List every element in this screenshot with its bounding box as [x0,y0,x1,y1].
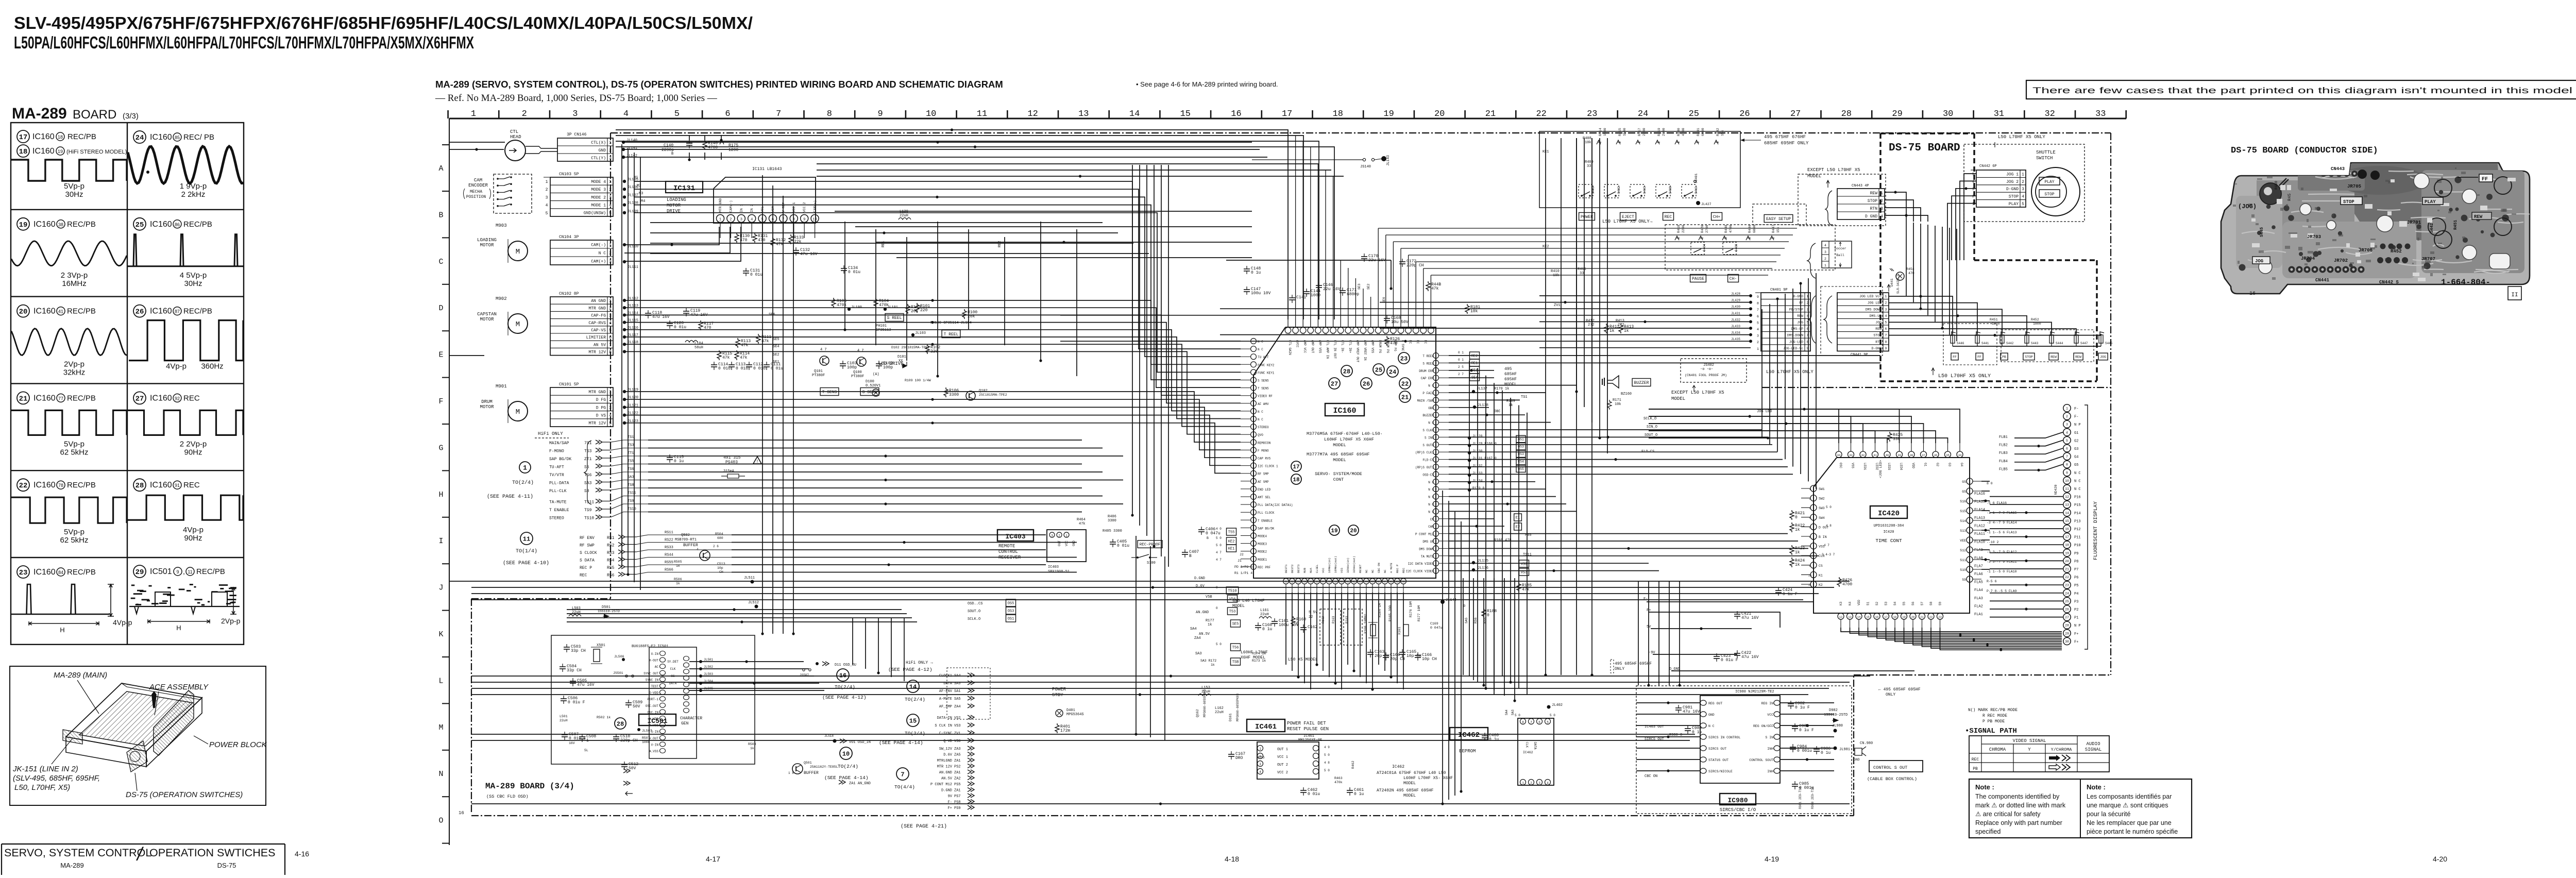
C422 cap [1734,650,1759,660]
svg-text:BUFFER: BUFFER [683,543,698,548]
wire middle bottom vertical 6 [1514,578,1515,701]
KE1 text [1543,150,1549,154]
wire CTL vertical 9 [650,243,1133,244]
wire mid vertical bundle 5 [1161,165,1162,556]
svg-text:P8: P8 [2074,560,2078,564]
svg-text:6: 6 [725,109,730,119]
svg-text:FLA9: FLA9 [1974,548,1983,552]
svg-text:19: 19 [1383,109,1394,119]
svg-text:JR706: JR706 [2359,248,2372,253]
svg-text:S2: S2 [1875,601,1879,605]
svg-text:STOP: STOP [2009,195,2019,199]
connector CN102 [550,292,613,356]
wire CN443 to CN442 3 [1885,208,1921,222]
wire DS-75 vertical 4 [1927,225,1928,315]
svg-text:S3: S3 [1885,601,1888,605]
svg-text:2200: 2200 [1642,128,1646,136]
svg-text:3: 3 [1051,534,1053,538]
svg-text:34: 34 [1958,453,1962,457]
svg-text:3: 3 [2066,423,2068,427]
wire IC420 bottom run 5 [1877,628,2062,638]
svg-text:14: 14 [1857,615,1861,619]
svg-text:OS1: OS1 [1008,617,1014,621]
svg-text:84: 84 [58,570,63,575]
IC462 label [1450,728,1488,740]
svg-text:5 0: 5 0 [1324,753,1330,757]
svg-text:R981 2E9-T18: R981 2E9-T18 [1799,786,1802,809]
svg-text:0 01u: 0 01u [848,270,860,275]
svg-text:IC501: IC501 [647,717,667,725]
wire IC980 lead 1 [1636,702,1700,703]
svg-text:M3777M7A 495 685HF 695HF: M3777M7A 495 685HF 695HF [1307,452,1369,457]
svg-text:495 675HF 676HF: 495 675HF 676HF [1764,134,1806,140]
svg-text:0 01u F: 0 01u F [568,700,585,705]
wire power rail 4 [1653,654,1737,655]
soccer bracket [1807,243,1816,278]
R113 resistor [736,338,751,348]
svg-text:S ING: S ING [1425,436,1434,440]
R126 resistor [1385,336,1400,346]
waveform 22 label [17,479,96,491]
connector arrows left cluster [623,769,633,796]
JS401 JL427 [1694,173,1711,206]
svg-text:3: 3 [609,406,612,410]
svg-text:N C: N C [1428,481,1434,484]
wire IC420 riser 6 [1649,409,1900,443]
svg-text:100p: 100p [847,365,857,370]
svg-text:0 1u: 0 1u [1489,737,1499,742]
connector CN443 [1837,189,1885,220]
circled 28c [615,718,626,729]
frame corner 16 [459,811,464,816]
IC980 function [1720,807,1756,813]
IC980 chip box [1700,696,1780,783]
wire IC420 riser 9 [1649,431,1936,443]
wire IC160 bottom drop 15 [1372,593,1373,689]
svg-text:CN442 S: CN442 S [2379,280,2399,285]
wire left vertical bundle 1 [621,144,622,567]
svg-text:18: 18 [2065,544,2069,547]
svg-text:47u 16V: 47u 16V [652,315,670,319]
svg-text:T SENS: T SENS [822,390,837,395]
R162 R163 labels [1321,616,1349,623]
svg-text:•SIGNAL PATH: •SIGNAL PATH [1965,727,2017,735]
SE1 label [1458,365,1480,374]
svg-text:H: H [438,491,443,499]
svg-text:N P: N P [2074,423,2081,427]
svg-text:Ne les remplacer que par une: Ne les remplacer que par une [2087,819,2172,826]
svg-text:PT380F: PT380F [851,375,864,379]
svg-text:12: 12 [1839,615,1843,619]
T510 label [1216,586,1239,594]
R101 resistor [915,303,930,313]
svg-text:5: 5 [1757,321,1759,325]
svg-text:ZA2: ZA2 [954,777,961,781]
svg-text:0 1: 0 1 [1458,351,1464,354]
svg-text:8: 8 [2066,463,2068,467]
C119 capacitor [683,308,708,317]
circled 20 in IC160 [1348,525,1359,535]
wire right vertical drop 10 [1584,138,1585,407]
svg-text:5 0: 5 0 [1550,714,1555,717]
svg-text:N() MARK REC/PB MODE: N() MARK REC/PB MODE [1968,708,2018,713]
L161 inductor [1259,609,1272,618]
svg-text:SIN_O: SIN_O [1647,425,1657,429]
svg-text:J2: J2 [1240,553,1244,556]
svg-text:CAM(+): CAM(+) [591,260,606,264]
svg-text:QVO: QVO [1258,433,1263,437]
svg-text:23: 23 [19,569,28,577]
page title line 1 [14,13,753,32]
C141 capacitor [1289,295,1306,303]
svg-text:OSC: OSC [1839,463,1842,468]
wire IC160 bottom drop 10 [1341,593,1342,689]
SE4 label [1458,373,1480,381]
wire IC160 bottom drop 4 [1304,593,1305,683]
svg-text:JL138: JL138 [1478,403,1488,408]
svg-text:91: 91 [175,483,180,488]
svg-text:INH: INH [1767,747,1773,751]
svg-text:DS-75 (OPERATION SWITCHES): DS-75 (OPERATION SWITCHES) [126,790,243,799]
R160 resistor [1291,616,1306,626]
svg-text:CTL IN OUT: CTL IN OUT [1333,340,1337,359]
svg-text:MAIN/SAP: MAIN/SAP [549,441,569,446]
svg-text:Q101: Q101 [814,369,823,374]
IC131 pin wires [720,223,815,238]
wire vertical IC403 right 3 [1454,511,1455,796]
svg-text:CONT: CONT [1333,477,1344,482]
svg-text:ZA1: ZA1 [954,771,961,775]
svg-text:DMS DOWN: DMS DOWN [1866,308,1882,311]
svg-text:15: 15 [1866,615,1870,619]
svg-text:M: M [516,248,520,256]
svg-text:5Vp-p: 5Vp-p [64,182,84,191]
svg-text:JK-151 (LINE IN 2): JK-151 (LINE IN 2) [12,765,78,773]
TSB label [1231,658,1266,665]
wire IC131 to right 7 [896,257,1252,258]
svg-text:R173 1k: R173 1k [1252,659,1266,663]
svg-text:AF AMV: AF AMV [1258,402,1269,406]
svg-text:JS140: JS140 [1360,165,1371,169]
svg-text:FLA7: FLA7 [1974,564,1983,568]
svg-text:R415: R415 [1618,128,1622,136]
svg-text:MECHA: MECHA [470,190,482,194]
svg-text:CHROMA: CHROMA [1989,747,2006,752]
svg-text:N C: N C [1428,503,1434,506]
svg-text:S443: S443 [2031,342,2039,345]
wire middle bottom vertical 13 [1518,405,1519,688]
svg-text:SHUTTLE: SHUTTLE [2036,150,2056,155]
wire FLA ladder 11 [1990,577,2063,578]
svg-text:IC160: IC160 [150,394,172,402]
svg-text:5 0: 5 0 [1216,544,1222,547]
T53 label [1216,606,1238,615]
REC label [1663,213,1674,221]
svg-text:220: 220 [920,308,928,313]
svg-text:31: 31 [1994,109,2004,119]
svg-text:36: 36 [1934,453,1938,457]
R405 text [1103,529,1122,533]
svg-text:R1 1/P1 4: R1 1/P1 4 [1234,571,1252,575]
wire middle bottom vertical 3 [1483,578,1484,685]
Q101 transistor [812,348,829,378]
svg-text:T REEL: T REEL [1422,354,1434,358]
svg-text:D102 2SC1815MA-TPE2: D102 2SC1815MA-TPE2 [891,346,929,349]
svg-text:6: 6 [1885,327,1887,331]
svg-text:E: E [438,351,443,360]
JS140 JL143 [1252,155,1391,169]
wire CN443 to CN442 2 [1885,200,1913,222]
wire switch common 1 [1953,346,2101,347]
svg-text:A-MUTE: A-MUTE [939,697,952,701]
board boundary bottom [471,815,1854,816]
C169 JL144 [1430,598,1456,630]
svg-text:33p CH: 33p CH [571,649,586,653]
svg-text:MA-289: MA-289 [12,105,67,122]
svg-text:S11: S11 [1960,559,1966,562]
svg-text:I2C CLOCK 1: I2C CLOCK 1 [1258,465,1278,468]
svg-text:TU AFT: TU AFT [1258,356,1269,359]
svg-text:4: 4 [609,321,612,326]
svg-text:4: 4 [751,218,753,222]
svg-text:S REEL: S REEL [887,316,902,320]
lower key dashed box [1665,225,1835,270]
L50 only top right [1995,134,2045,147]
svg-text:CAM: CAM [1428,525,1434,529]
svg-text:NC: NC [1365,569,1368,573]
svg-text:FLUORESCENT DISPLAY: FLUORESCENT DISPLAY [2093,501,2099,560]
svg-text:IC420: IC420 [1878,510,1900,518]
svg-text:VS2: VS2 [954,716,961,720]
main hatched board [79,691,193,746]
svg-text:5: 5 [546,211,548,216]
svg-text:1k: 1k [1609,329,1615,333]
wire FLA ladder 9 [1990,560,2063,561]
R502 text [597,716,611,719]
circled 17 in IC160 [1291,461,1301,471]
svg-text:21: 21 [1401,394,1409,401]
svg-text:The components identified by: The components identified by [1975,793,2060,800]
svg-text:JL432: JL432 [1731,318,1740,322]
svg-text:R450: R450 [2275,181,2279,190]
wire IC160 bottom drop 20 [1403,593,1404,689]
R412 R413 resistors [1604,324,1634,333]
wire IC980 lead 3 [1636,725,1700,726]
svg-text:1: 1 [523,464,527,472]
wire FLA ladder 7 [1990,544,2063,545]
svg-text:IC462: IC462 [1392,765,1404,769]
wire loading motor row 3 [624,227,741,261]
svg-text:P6: P6 [2074,576,2078,580]
svg-text:R412: R412 [1586,319,1595,323]
svg-text:F-: F- [2074,415,2078,419]
svg-text:IC461: IC461 [1255,723,1277,731]
wire IC420 bottom run 8 [1904,628,2062,643]
svg-text:REC P: REC P [1396,564,1399,573]
DS-75 conductor side title [2231,146,2378,156]
svg-text:D FG: D FG [596,398,606,402]
svg-text:4-17: 4-17 [706,855,720,863]
IC420 right pins [1960,478,1981,582]
svg-text:MOTOR: MOTOR [667,203,681,208]
S100 switch [1131,554,1157,565]
PCB board photo [2221,163,2537,294]
svg-text:M: M [516,320,520,329]
wire FLA ladder 19 [2014,448,2063,454]
CBC ON text [1645,774,1657,779]
waveform 19 caption [61,271,88,288]
wire IC420 right stub 4 [1981,510,1990,511]
svg-text:⚠ are critical for safety: ⚠ are critical for safety [1975,811,2041,818]
svg-text:C141: C141 [1296,295,1306,300]
label JK-151 [12,739,100,792]
svg-text:8: 8 [1522,721,1524,724]
svg-text:LIMITIER: LIMITIER [586,335,606,340]
wire bus below IC160 8 [471,694,1808,695]
label POWER BLOCK [194,736,267,749]
JL135 dot [1472,559,1488,564]
svg-text:RS1: RS1 [607,536,615,541]
svg-text:LOADING: LOADING [667,197,686,202]
svg-text:L161: L161 [1260,609,1269,613]
wire IC980 lead 8 [1780,702,1834,703]
wire IC420 bottom run 1 [1841,628,2062,632]
svg-text:ONLY: ONLY [1615,667,1624,671]
circled 21b [1399,391,1411,402]
svg-text:BU6188FS-E2 IC501: BU6188FS-E2 IC501 [632,645,668,649]
D441 LED [1887,267,1914,294]
svg-text:UPD1631208-384: UPD1631208-384 [1874,524,1904,528]
svg-text:PLAY: PLAY [2044,180,2054,184]
IC501 part text [632,645,668,649]
svg-text:SW3: SW3 [1819,506,1825,510]
svg-text:SA4: SA4 [1190,627,1197,631]
svg-text:OSC.OUT: OSC.OUT [646,704,659,708]
svg-text:SA3 R172: SA3 R172 [1200,659,1216,663]
wire bus below IC160 11 [471,803,1850,804]
IC420 fla labels [1987,482,2017,593]
svg-text:1k: 1k [1795,550,1800,555]
svg-text:GND: GND [599,148,606,153]
svg-text:R418: R418 [1677,225,1681,233]
wire CAM encoder row 5 [634,213,1241,373]
C113 capacitor [728,362,748,371]
svg-text:FLA6: FLA6 [1974,572,1983,577]
EJECT label [1620,213,1636,221]
wire DS-75 vertical 5 [1935,226,1936,322]
jog led vertical [1879,460,1883,478]
waveform 25 label [133,218,212,230]
svg-text:L50 L70HF X5 ONLY: L50 L70HF X5 ONLY [1766,369,1814,375]
svg-text:17: 17 [1293,464,1299,470]
svg-text:2Vp-p: 2Vp-p [64,360,84,369]
svg-text:S5: S5 [584,465,589,470]
svg-text:13: 13 [1848,615,1852,619]
wire mid vertical bundle 2 [1139,165,1140,526]
CN442 label [1979,164,1997,168]
svg-text:V5B: V5B [1206,595,1212,599]
CN441 label [1851,353,1868,357]
svg-text:(3/3): (3/3) [123,112,139,121]
svg-text:RS33: RS33 [665,546,673,550]
signal path title [1965,727,2017,735]
svg-text:33: 33 [1580,272,1584,276]
svg-text:5 0: 5 0 [1515,714,1520,717]
svg-text:Q162: Q162 [1196,709,1199,717]
svg-text:PB: PB [1973,767,1978,771]
svg-text:C162: C162 [1308,625,1317,630]
svg-text:3: 3 [1885,308,1887,311]
PCB label JR702 [2334,258,2348,263]
svg-text:2: 2 [1530,782,1532,785]
svg-text:FF: FF [2482,177,2488,182]
svg-text:REC/PB: REC/PB [183,307,212,316]
waveform 19 label [17,218,96,230]
wire vertical IC403 right 4 [1461,521,1462,791]
wire middle bottom vertical 15 [1545,138,1546,675]
wire IC160 bottom drop 12 [1353,593,1354,671]
svg-text:ZA1 AN_GND: ZA1 AN_GND [849,782,871,786]
R172 text [1200,659,1216,667]
svg-text:SIRCS/NICOLE: SIRCS/NICOLE [1708,770,1733,773]
PCB R450 [2275,181,2279,190]
svg-text:IC160: IC160 [33,481,56,489]
C170 capacitor [1361,254,1386,263]
svg-text:R-5 6: R-5 6 [1987,580,1997,583]
svg-text:AN GND: AN GND [591,299,606,303]
svg-text:H: H [176,624,181,632]
svg-text:6: 6 [1538,721,1540,724]
wire mid vertical bundle 3 [1146,165,1147,536]
signal list right [930,673,974,811]
svg-text:HiFi ONLY →: HiFi ONLY → [906,661,933,665]
svg-text:FLB1: FLB1 [1999,435,2008,440]
5L text [569,741,588,752]
svg-text:IC160: IC160 [33,568,56,577]
Q102 transistor [966,389,1007,400]
wire CN441 to switch 3 [1889,309,2002,334]
svg-text:42: 42 [1861,453,1865,457]
svg-text:77: 77 [58,396,63,401]
svg-text:B: B [438,211,443,220]
svg-text:B IN: B IN [1819,535,1827,539]
drum motor label [480,399,494,410]
wire IC420 riser 5 [1649,438,1887,443]
svg-text:PORT-1: PORT-1 [647,698,658,701]
wire IC501 vertical 1 [852,618,853,665]
svg-text:1500: 1500 [1603,128,1607,136]
svg-text:RF SWP: RF SWP [580,544,595,548]
svg-text:RESET PULSE GEN: RESET PULSE GEN [1287,727,1329,732]
except L50 bottom [1671,385,1724,401]
svg-text:V-IN: V-IN [651,743,659,747]
ZV1 label [1554,303,1561,308]
C163 cap [1367,649,1389,659]
C146 capacitor [1316,282,1341,292]
wire RS row 6 [732,572,1077,573]
svg-text:CAM(-): CAM(-) [729,200,733,212]
IC160 label [1325,403,1364,416]
svg-text:CTL: CTL [510,129,518,134]
svg-text:2: 2 [730,218,732,222]
PCB label CN443 [2331,166,2345,172]
svg-text:BUZZER: BUZZER [1634,381,1649,385]
R171 text [1607,398,1621,410]
svg-text:INH: INH [1767,770,1773,773]
svg-text:II: II [2511,292,2518,298]
row letters [438,145,449,843]
svg-text:CN443 4P: CN443 4P [1852,184,1869,188]
